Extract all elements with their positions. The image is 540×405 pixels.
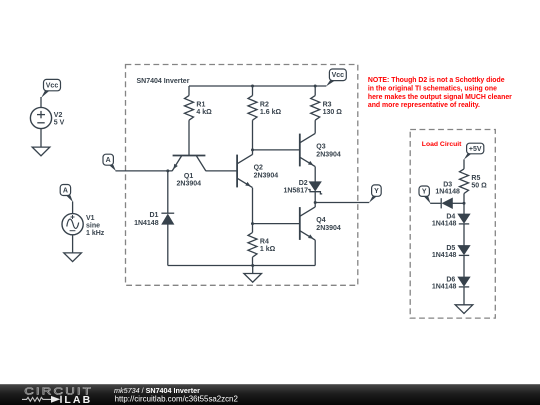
wire +5V to R5 <box>463 159 465 169</box>
svg-text:R5: R5 <box>471 175 480 182</box>
flag tail <box>424 196 431 203</box>
svg-text:Vcc: Vcc <box>46 82 59 89</box>
wire Vcc rail <box>189 85 326 87</box>
junction rail/R2 <box>251 85 254 88</box>
svg-text:D1: D1 <box>149 212 158 219</box>
svg-text:R4: R4 <box>260 239 269 246</box>
svg-text:A: A <box>106 157 111 164</box>
svg-text:D2: D2 <box>299 180 308 187</box>
svg-text:4 kΩ: 4 kΩ <box>196 109 212 116</box>
wire input A to Q1 emitter <box>116 170 173 172</box>
svg-text:and more representative of rea: and more representative of reality. <box>368 102 480 109</box>
junction R5/D3/D4 <box>463 202 466 205</box>
svg-text:NOTE: Though D2 is not a Schot: NOTE: Though D2 is not a Schottky diode <box>368 77 505 84</box>
svg-text:Y: Y <box>374 188 379 195</box>
flag tail <box>326 80 335 86</box>
svg-text:1N4148: 1N4148 <box>432 252 457 259</box>
svg-text:D5: D5 <box>446 245 455 252</box>
net flag Y at output <box>372 185 382 196</box>
svg-text:5 V: 5 V <box>54 120 65 127</box>
diode D2 1N5817 <box>308 182 322 194</box>
flag tail <box>369 196 377 203</box>
junction Q2 emitter/R4/Q4 base <box>251 222 254 225</box>
wire Y to D3 <box>430 202 441 204</box>
svg-text:in the original TI schematics,: in the original TI schematics, using one <box>368 85 497 92</box>
wire output Y <box>315 202 369 204</box>
wire Q4 emitter down <box>314 240 316 265</box>
svg-text:1.6 kΩ: 1.6 kΩ <box>260 109 282 116</box>
svg-text:1N4148: 1N4148 <box>435 188 460 195</box>
svg-text:Load Circuit: Load Circuit <box>422 141 462 148</box>
net flag Vcc at rail <box>329 69 346 81</box>
wire R5 to node <box>463 194 465 204</box>
annotation box Load Circuit <box>410 130 495 319</box>
net flag A at V1 <box>60 185 70 196</box>
svg-text:Y: Y <box>422 189 427 196</box>
wire Q2 emitter down <box>252 188 254 224</box>
svg-text:A: A <box>63 187 68 194</box>
wire rail to R3 <box>314 86 316 96</box>
svg-text:here makes the output signal M: here makes the output signal MUCH cleane… <box>368 94 512 101</box>
svg-text:2N3904: 2N3904 <box>254 172 279 179</box>
wire Q4 collector up <box>314 203 316 208</box>
svg-text:V1: V1 <box>86 215 95 222</box>
svg-text:D6: D6 <box>446 276 455 283</box>
wire bottom rail <box>168 265 315 267</box>
diode D6 1N4148 <box>458 277 470 287</box>
diode D1 1N4148 <box>161 213 174 224</box>
svg-text:1 kΩ: 1 kΩ <box>260 246 276 253</box>
transistor Q4 2N3904 <box>300 207 341 240</box>
wire R1 to Q1 base <box>188 120 190 155</box>
wire input to D1 <box>167 171 169 213</box>
svg-text:V2: V2 <box>54 112 63 119</box>
diode D3 1N4148 <box>441 198 452 208</box>
wire rail to R2 <box>252 86 254 96</box>
svg-text:2N3904: 2N3904 <box>316 151 341 158</box>
wire R2 to Q2 collector node <box>252 120 254 150</box>
svg-text:Vcc: Vcc <box>332 72 345 79</box>
net flag A at input <box>103 154 113 165</box>
junction D2/Q4 collector/output <box>314 201 317 204</box>
wire D4 to D5 <box>463 224 465 246</box>
ground main <box>244 274 262 283</box>
ground at V1 <box>64 253 82 262</box>
junction input/D1 <box>166 169 169 172</box>
svg-text:R2: R2 <box>260 102 269 109</box>
wire D3 to node <box>452 202 464 204</box>
annotation box SN7404 Inverter <box>126 65 358 286</box>
svg-text:1N4148: 1N4148 <box>432 220 457 227</box>
flag tail <box>464 154 472 160</box>
wire to ground <box>252 266 254 274</box>
wire V1 top <box>72 202 74 214</box>
wire node to D4 <box>463 203 465 214</box>
wire V2 bottom <box>40 129 42 148</box>
svg-text:Q1: Q1 <box>184 173 193 180</box>
svg-text:Q4: Q4 <box>316 217 325 224</box>
resistor R5 50 &#937; <box>460 169 488 194</box>
svg-text:Q2: Q2 <box>254 165 263 172</box>
flag tail <box>109 165 116 171</box>
ground at V2 <box>32 147 50 156</box>
svg-text:1N4148: 1N4148 <box>134 220 159 227</box>
svg-text:D4: D4 <box>446 213 455 220</box>
wire Q2 collector node to Q3 base <box>253 149 300 151</box>
CircuitLab footer bar <box>0 384 540 405</box>
svg-text:2N3904: 2N3904 <box>177 181 202 188</box>
flag tail <box>66 195 73 202</box>
wire D5 to D6 <box>463 255 465 277</box>
wire Q2 collector up <box>252 150 254 155</box>
svg-text:R3: R3 <box>323 102 332 109</box>
junction rail/R3 <box>314 85 317 88</box>
svg-text:1N4148: 1N4148 <box>432 283 457 290</box>
svg-text:130 Ω: 130 Ω <box>323 109 343 116</box>
transistor Q2 2N3904 <box>237 154 278 187</box>
voltage source V2 5 V <box>30 107 64 128</box>
junction bottom rail/ground <box>251 264 254 267</box>
net flag Vcc at V2 <box>44 79 61 90</box>
svg-text:+5V: +5V <box>469 146 482 153</box>
note text about D2 <box>368 77 512 109</box>
svg-text:sine: sine <box>86 222 100 229</box>
transistor Q3 2N3904 <box>300 133 341 166</box>
diode D5 1N4148 <box>458 246 470 256</box>
net flag Y at load <box>419 186 429 196</box>
svg-text:LAB: LAB <box>64 394 92 405</box>
wire to R4 <box>252 224 254 233</box>
svg-text:http://circuitlab.com/c36t55sa: http://circuitlab.com/c36t55sa2zcn2 <box>115 394 238 403</box>
wire D6 to ground <box>463 287 465 305</box>
diode D4 1N4148 <box>458 214 470 224</box>
wire D2 to output node <box>314 192 316 203</box>
svg-text:1N5817: 1N5817 <box>283 188 308 195</box>
resistor R4 1 k&#937; <box>248 233 276 258</box>
net flag +5V <box>467 143 484 154</box>
flag tail <box>41 91 49 98</box>
svg-text:1 kHz: 1 kHz <box>86 230 105 237</box>
transistor Q1 2N3904 <box>172 156 206 188</box>
resistor R1 4 k&#937; <box>185 96 213 121</box>
wire Q4 base <box>253 223 300 225</box>
svg-text:2N3904: 2N3904 <box>316 225 341 232</box>
wire Q1 collector to Q2 base <box>206 170 238 172</box>
svg-text:SN7404 Inverter: SN7404 Inverter <box>137 78 190 85</box>
svg-text:Q3: Q3 <box>316 144 325 151</box>
wire R4 to bottom rail <box>252 257 254 265</box>
wire Q3 emitter to D2 <box>314 167 316 182</box>
voltage source V1 sine 1 kHz <box>62 214 105 237</box>
ground load <box>455 305 473 314</box>
svg-text:R1: R1 <box>196 102 205 109</box>
wire D1 to bottom rail <box>167 224 169 265</box>
resistor R2 1.6 k&#937; <box>248 96 281 121</box>
resistor R3 130 &#937; <box>311 96 343 121</box>
wire V2 top <box>40 97 42 107</box>
junction Q2 collector/R2/Q3 base <box>251 148 254 151</box>
wire rail to R1 <box>188 86 190 96</box>
svg-text:50 Ω: 50 Ω <box>471 183 487 190</box>
svg-text:D3: D3 <box>443 181 452 188</box>
wire R3 to Q3 collector <box>314 120 316 133</box>
wire V1 bottom <box>72 235 74 254</box>
